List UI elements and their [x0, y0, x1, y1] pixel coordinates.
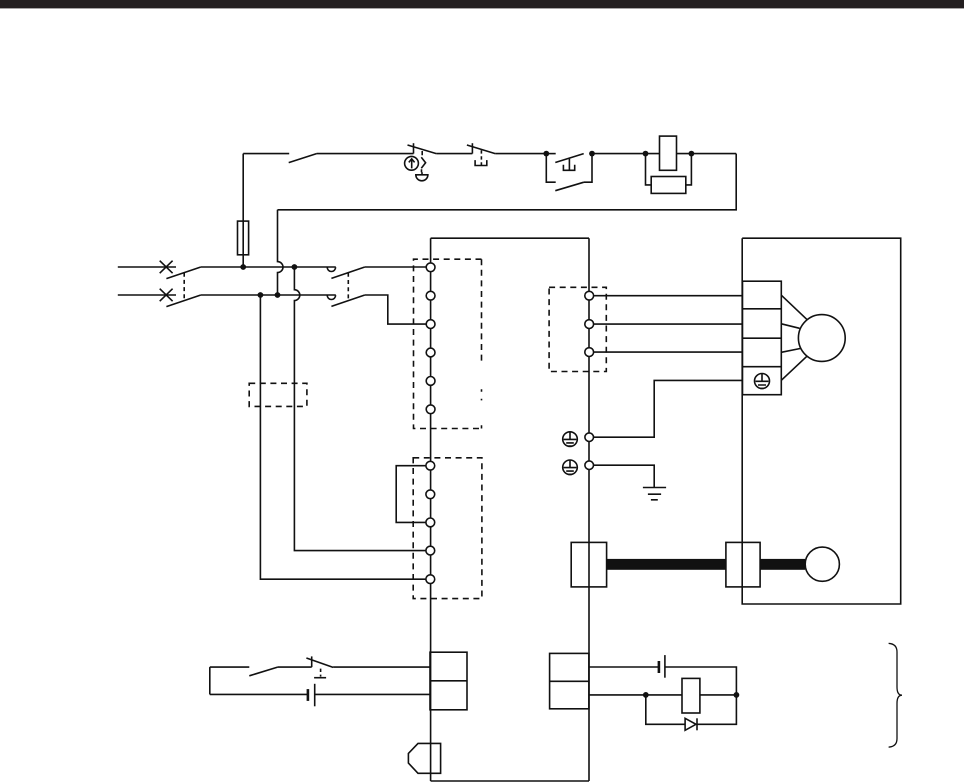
wire battery circuit left leg: [209, 667, 211, 694]
connector CN1 terminal 5: [426, 377, 435, 386]
protective earth symbol in block: [755, 374, 770, 389]
plug contact X line 1: [160, 261, 173, 274]
switch S4 actuator post: [568, 159, 570, 171]
breaker mechanical link: [183, 273, 185, 301]
motor terminal block dividers: [743, 309, 782, 367]
switch S2 dome actuator: [416, 175, 428, 181]
wire power line 2: [118, 294, 176, 296]
console enclosure: [431, 238, 589, 781]
plug contact X line 2: [160, 289, 173, 302]
switch S3 blade: [467, 145, 495, 154]
connector CN2 dashed box: [413, 458, 482, 599]
switch S6 dashed actuator link: [320, 669, 322, 677]
wire battery to box: [315, 693, 430, 695]
switch S4 lower branch: [546, 154, 555, 183]
switch S4 upper blade: [555, 154, 583, 163]
switch S4 lower stub and riser: [584, 154, 592, 183]
diode D1 cathode bar: [696, 718, 698, 730]
wire coil to node: [700, 694, 737, 696]
connector CN2 terminal 5: [426, 575, 435, 584]
wire earth terminal 2 to ground: [594, 465, 655, 487]
wire phase W: [594, 351, 743, 353]
switch S3 dashed actuator link: [480, 150, 482, 165]
wire pole 2 jog to terminal 3: [365, 295, 426, 324]
switch S4 latch bracket: [563, 165, 574, 171]
wire control line segment: [592, 153, 660, 155]
motor phase terminal W: [585, 348, 594, 357]
node line1 rail: [292, 264, 298, 270]
motor phase terminal V: [585, 320, 594, 329]
connector small dashed box: [249, 383, 307, 406]
wire sensor circuit bottom: [589, 694, 682, 696]
ground symbol: [643, 488, 666, 500]
connector CN2 terminal 3: [426, 518, 435, 527]
contactor pole 1 blade: [331, 267, 364, 278]
connector CN2 terminal 2: [426, 490, 435, 499]
wire power line 1: [118, 266, 176, 268]
earth terminal 2: [585, 461, 594, 470]
fuse F1: [238, 221, 249, 255]
switch S2 rotation sensor circle: [405, 156, 419, 170]
handle knob: [805, 547, 839, 581]
node fuse line1: [240, 264, 246, 270]
switch S5 blade: [249, 667, 277, 676]
switch S6 fixed contact bar: [311, 656, 313, 667]
motor lead 2: [781, 324, 799, 329]
terminal box TB1 divider: [430, 680, 467, 682]
drive shaft: [607, 559, 726, 570]
contactor pole 1 fixed cup: [327, 267, 335, 271]
diode D1: [685, 718, 696, 730]
resistor R1 right leg: [686, 154, 692, 185]
motor lead 4: [781, 356, 806, 380]
node control dot 2: [589, 151, 595, 157]
motor terminal block: [743, 281, 782, 395]
node diode right: [734, 692, 740, 698]
shaft coupling right box: [726, 542, 760, 587]
wire battery circuit bottom: [210, 693, 308, 695]
key plug symbol: [408, 743, 440, 773]
contactor pole 2 blade: [331, 295, 364, 306]
wire diode to node: [697, 695, 736, 724]
protective earth symbol 2: [563, 460, 578, 475]
connector CN1 terminal 6: [426, 405, 435, 414]
switch S2 arrow: [409, 159, 415, 169]
wire rail from line 1 with hop over line 2: [294, 267, 426, 551]
connector CN2 terminal 1: [426, 461, 435, 470]
wire battery B2 to node: [665, 667, 737, 695]
wire control line segment: [495, 153, 546, 155]
battery B2 long plate: [664, 655, 666, 678]
motor lead 1: [781, 295, 808, 320]
wire rail from line 2: [260, 295, 426, 579]
terminal box TB2: [550, 653, 589, 708]
motor connector dashed box: [549, 287, 606, 371]
node coil right: [689, 151, 695, 157]
connector CN1 terminal 2: [426, 291, 435, 300]
wire line 1 to connector terminal: [365, 266, 426, 268]
wire battery circuit top middle: [278, 666, 312, 668]
connector CN1 terminal 1: [426, 263, 435, 272]
wire control return line: [278, 154, 737, 210]
motor lead 3: [781, 349, 800, 353]
node control dot 1: [543, 151, 549, 157]
wire control line segment: [317, 153, 414, 155]
wire battery circuit top right: [333, 666, 430, 668]
node line2 rail: [258, 292, 264, 298]
resistor R1 left leg: [646, 154, 652, 185]
earth terminal 1: [585, 433, 594, 442]
terminal box TB2 divider: [550, 680, 589, 682]
brace annotation: [889, 643, 902, 747]
connector CN2 terminal 4: [426, 546, 435, 555]
relay coil K1: [660, 136, 677, 170]
wire phase V: [594, 323, 743, 325]
switch S6 blade: [306, 658, 333, 667]
node line2 return: [275, 292, 281, 298]
diode D1 branch: [646, 695, 685, 724]
fuse F1 lead: [242, 154, 244, 267]
switch S4 upper stub: [546, 153, 555, 155]
connector CN1 dashed box right edge faded: [481, 259, 483, 361]
switch S4 lower blade: [555, 182, 584, 191]
switch S2 fixed contact bar: [413, 143, 415, 153]
connector CN1 terminal 4: [426, 348, 435, 357]
resistor R1: [651, 177, 686, 194]
protective earth symbol 1: [563, 432, 578, 447]
switch S2 actuator link: [421, 151, 425, 175]
wire power line 1: [201, 266, 336, 268]
motor M1: [798, 315, 845, 362]
drive shaft segment 2: [760, 559, 805, 570]
contactor mechanical link: [347, 273, 349, 301]
connector CN2 jumper bracket: [396, 466, 426, 523]
wire control return drop with hop over line 1: [278, 210, 284, 295]
node coil left: [643, 151, 649, 157]
connector CN1 dashed box: [414, 259, 482, 428]
battery B1 long plate: [314, 684, 316, 707]
switch S3 fixed contact bar: [471, 143, 473, 153]
connector CN1 terminal 3: [426, 320, 435, 329]
wire power line 2: [201, 294, 336, 296]
wire control line segment: [677, 153, 737, 155]
switch S3 latch bracket: [475, 160, 487, 165]
breaker pole 2 blade: [166, 295, 200, 307]
battery B2 short plate: [658, 661, 661, 673]
node diode left: [643, 692, 649, 698]
terminal box TB1: [430, 652, 467, 710]
switch S6 actuator bar: [314, 677, 326, 679]
wire control line segment: [436, 153, 472, 155]
wire sensor circuit top: [589, 666, 659, 668]
battery B1 short plate: [307, 689, 310, 701]
switch S2 blade: [408, 145, 437, 154]
breaker pole 1 blade: [166, 267, 200, 279]
switch S1 blade: [289, 154, 317, 163]
wire control line left segment: [243, 153, 289, 155]
motor phase terminal U: [585, 291, 594, 300]
junction node dots: [240, 151, 739, 698]
contactor pole 2 fixed cup: [327, 295, 335, 299]
page header bar: [0, 0, 964, 8]
relay coil K2: [682, 678, 700, 713]
motor enclosure box: [742, 238, 901, 604]
wire earth to motor block: [594, 380, 743, 437]
wire battery circuit top: [210, 666, 250, 668]
shaft coupling left box: [571, 542, 606, 587]
wire phase U: [594, 295, 743, 297]
